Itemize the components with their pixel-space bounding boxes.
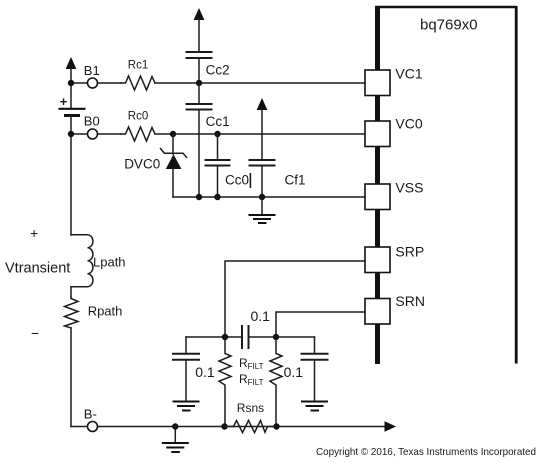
node dot left/VC0 <box>68 131 74 137</box>
node dot VC1/Cc2 <box>196 80 202 86</box>
svg-text:Rc1: Rc1 <box>128 59 148 71</box>
node dot left/VC1 <box>68 80 74 86</box>
node dot SRN/rail <box>273 334 279 340</box>
battery B1/B0 plates <box>59 108 86 110</box>
capacitor 0.1 right <box>301 337 329 401</box>
svg-text:B-: B- <box>84 407 97 422</box>
capacitor 0.1 series (vertical plates) <box>241 325 243 349</box>
svg-text:Lpath: Lpath <box>93 255 126 270</box>
terminal circle B0 <box>88 129 98 139</box>
wire left vertical top <box>70 66 72 108</box>
svg-text:SRP: SRP <box>395 243 424 259</box>
svg-text:Rsns: Rsns <box>237 401 264 415</box>
svg-text:SRN: SRN <box>395 293 425 309</box>
capacitor Cc1 <box>186 103 213 105</box>
wire Cf1 to VSS rail <box>261 167 263 198</box>
wire bottom rail B- <box>71 426 385 428</box>
pin box VC1 <box>365 70 390 96</box>
capacitor Cf1 <box>249 159 276 161</box>
node dot Cf1/VSS <box>259 194 265 200</box>
wire SRN <box>276 312 365 337</box>
wire Cc1 vertical <box>198 83 200 103</box>
svg-text:+: + <box>30 225 38 241</box>
svg-text:0.1: 0.1 <box>284 364 304 380</box>
wire arrow to Cc2 <box>198 19 200 51</box>
node dot SRP/rail <box>222 334 228 340</box>
terminal circle B- <box>88 422 98 432</box>
wire VC0 row to pin <box>155 133 365 135</box>
svg-text:0.1: 0.1 <box>195 364 215 380</box>
sense filter rail <box>186 336 242 338</box>
svg-text:−: − <box>31 325 39 341</box>
svg-text:0.1: 0.1 <box>251 308 271 324</box>
ground right cap <box>301 402 328 411</box>
capacitor Cf1 branch: arrow up <box>257 98 268 110</box>
svg-text:B1: B1 <box>84 63 100 78</box>
node dot ground rail <box>172 423 178 429</box>
wire SRP <box>225 261 365 337</box>
wire VC1 row to pin <box>155 82 365 84</box>
pin box SRP <box>365 247 390 273</box>
wire VSS rail <box>173 196 365 198</box>
arrow up left <box>66 57 77 69</box>
capacitor Cc2 branch: arrow up <box>194 8 205 20</box>
wire Rpath to bottom rail <box>70 328 72 427</box>
svg-text:Rpath: Rpath <box>88 304 123 319</box>
wire VC1 row <box>71 82 121 84</box>
svg-text:Vtransient: Vtransient <box>5 261 70 277</box>
svg-text:Cf1: Cf1 <box>285 172 306 187</box>
resistor Rc1 <box>121 76 155 90</box>
arrow right at rail end <box>385 421 397 431</box>
svg-text:bq769x0: bq769x0 <box>420 17 478 34</box>
pin box SRN <box>365 299 390 325</box>
resistor RFILT left (vertical) <box>219 337 231 427</box>
svg-text:Rc0: Rc0 <box>128 110 148 122</box>
svg-text:DVC0: DVC0 <box>124 156 160 171</box>
wire left vertical battery to inductor <box>70 117 72 235</box>
pin box VC0 <box>365 121 390 147</box>
wire VC0 row <box>71 133 121 135</box>
terminal circle B1 <box>88 78 98 88</box>
resistor Rc0 <box>121 127 155 141</box>
pin box VSS <box>365 184 390 210</box>
svg-text:VC0: VC0 <box>395 116 422 132</box>
IC U1 bq769x0 outline <box>375 6 517 364</box>
capacitor Cc2 <box>186 51 213 53</box>
resistor RFILT right (vertical) <box>270 337 282 427</box>
wire arrow to Cf1 <box>261 109 263 159</box>
inductor Lpath <box>71 235 93 287</box>
svg-text:Copyright © 2016, Texas Instru: Copyright © 2016, Texas Instruments Inco… <box>316 446 536 458</box>
ground left cap <box>173 402 200 411</box>
svg-text:Cc2: Cc2 <box>206 63 230 78</box>
svg-text:+: + <box>60 94 68 109</box>
resistor Rsns <box>221 421 279 433</box>
zener diode DVC0 <box>161 131 187 197</box>
svg-text:Cc0: Cc0 <box>225 172 249 187</box>
svg-text:B0: B0 <box>84 113 100 128</box>
svg-text:Cc1: Cc1 <box>206 114 230 129</box>
svg-text:VSS: VSS <box>395 180 423 196</box>
ground at VSS rail <box>249 197 276 223</box>
wire inductor to Rpath <box>70 287 72 297</box>
ground at bottom rail <box>162 427 189 453</box>
wire Cc1 to VSS rail <box>198 111 200 198</box>
node dot Cc1/VSS <box>196 194 202 200</box>
svg-text:VC1: VC1 <box>395 66 422 82</box>
wire Cc2 to VC1 row <box>198 59 200 83</box>
capacitor 0.1 left <box>172 337 200 401</box>
text cursor artifact <box>249 173 251 188</box>
resistor Rpath <box>65 297 79 328</box>
capacitor Cc0 branch <box>205 131 231 200</box>
